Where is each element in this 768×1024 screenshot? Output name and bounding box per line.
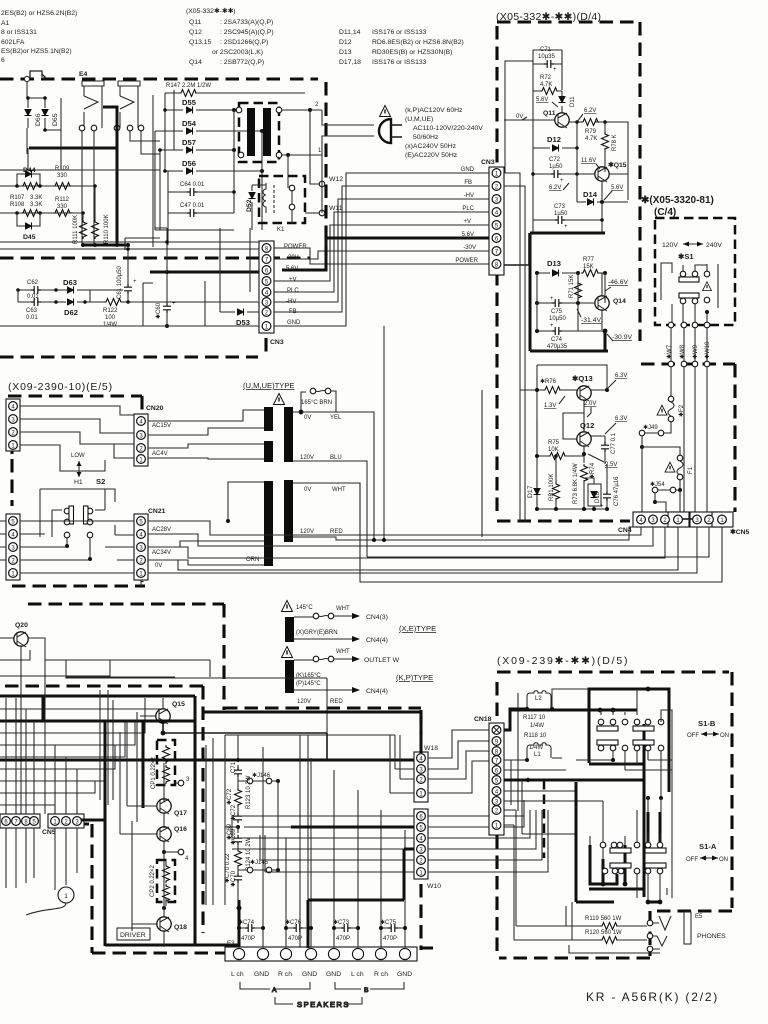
thermal fuse 165C — [299, 388, 336, 414]
wire CN20 to transformer taps — [148, 410, 264, 459]
svg-text:RD30ES(B) or HZS30N(B): RD30ES(B) or HZS30N(B) — [372, 49, 452, 56]
svg-text:+: + — [553, 67, 557, 73]
resistor R78 vertical — [602, 122, 619, 172]
wires W18 to CN18 — [428, 730, 490, 793]
svg-text:D54: D54 — [182, 119, 197, 128]
jumper J145 — [238, 859, 280, 873]
wire bottom rail of Q12 section — [537, 508, 607, 510]
svg-text:CN20: CN20 — [146, 405, 164, 412]
svg-text:330: 330 — [57, 204, 68, 210]
junction dots — [81, 243, 130, 247]
diode D63 — [54, 278, 90, 302]
svg-text:: 2SB772(Q,P): : 2SB772(Q,P) — [220, 59, 264, 66]
wire secondary 120V RED — [293, 527, 635, 540]
svg-text:D62: D62 — [64, 308, 78, 317]
svg-text:POWER: POWER — [284, 244, 307, 250]
svg-text:H1: H1 — [74, 479, 83, 486]
svg-text:-31.4V: -31.4V — [581, 317, 601, 324]
svg-text:✱J49: ✱J49 — [643, 424, 658, 431]
diode D54 — [155, 119, 264, 135]
CN3 right pin labels — [455, 167, 478, 264]
svg-text:D13: D13 — [339, 49, 352, 56]
capacitor C63 0.01 — [18, 290, 56, 321]
wires left into W18 — [390, 735, 414, 793]
svg-text:1/4W: 1/4W — [530, 723, 544, 729]
dashed border mid horizontal — [0, 355, 258, 358]
wire Q16-Q18 chain — [163, 858, 165, 908]
capacitor C61 100u50 vertical — [117, 247, 137, 304]
svg-text:LOW: LOW — [71, 453, 85, 459]
diode D57 — [160, 138, 236, 154]
svg-text:D14: D14 — [583, 190, 598, 199]
svg-text:-30.9V: -30.9V — [612, 334, 632, 341]
transformer mid left bars — [264, 407, 273, 431]
dashed separator W10 — [543, 780, 546, 858]
capacitor C72b — [230, 804, 242, 829]
svg-text:E5: E5 — [695, 914, 703, 920]
svg-text:FB: FB — [464, 180, 472, 186]
svg-text:-30V: -30V — [286, 255, 299, 261]
connector CN21 pins — [137, 517, 146, 578]
svg-text:3.3K: 3.3K — [30, 195, 42, 201]
svg-text:✱C69: ✱C69 — [230, 828, 237, 845]
resistor R112 330 — [53, 197, 85, 217]
svg-text:240V: 240V — [706, 242, 722, 249]
wires to speaker terminals — [263, 735, 405, 948]
label 3 terminal — [175, 777, 190, 786]
switch S1 right contacts — [703, 271, 712, 314]
dashed border jog right — [224, 706, 421, 709]
bold wire S1-B top loop — [589, 689, 669, 897]
coil L2 — [527, 691, 551, 709]
dashed box bottom-left top border — [28, 602, 224, 605]
label 0V — [504, 114, 555, 120]
svg-text:3.3K: 3.3K — [30, 202, 42, 208]
label -31.4V — [577, 309, 601, 324]
connector CN21 body — [134, 514, 148, 580]
svg-text:DRIVER: DRIVER — [120, 932, 146, 939]
diode D18 vertical boxed — [584, 478, 604, 510]
diode D13 — [535, 259, 580, 277]
svg-text:GND: GND — [287, 320, 301, 326]
dashed border left lower — [55, 824, 225, 953]
test point circles row — [79, 125, 144, 131]
label 0V WHT — [304, 487, 346, 493]
svg-text:K1: K1 — [277, 227, 285, 233]
svg-text:L ch: L ch — [231, 971, 244, 978]
W11 terminal — [305, 205, 343, 216]
thermal fuse row2 — [294, 656, 360, 662]
svg-text:10µ50: 10µ50 — [549, 316, 566, 322]
svg-text:C62: C62 — [27, 280, 39, 286]
bold wire W10 pin3 — [308, 849, 414, 948]
svg-text:D66: D66 — [35, 113, 42, 126]
svg-text:(U,M,UE): (U,M,UE) — [405, 116, 433, 123]
svg-text:C73: C73 — [554, 204, 566, 210]
svg-text:6.3V: 6.3V — [615, 373, 627, 379]
connector E5-left-lower pins — [9, 517, 18, 578]
label 120V RED — [300, 529, 343, 535]
svg-text:D56: D56 — [182, 159, 196, 168]
jumper hook on dashed line — [24, 71, 45, 82]
bold wire E4 net — [29, 107, 117, 245]
wire mesh left — [61, 130, 160, 245]
diode D11 vertical — [559, 91, 577, 112]
svg-text:6: 6 — [1, 57, 5, 64]
wire horizontal rows — [0, 148, 160, 213]
label 120V RED row2 — [297, 699, 343, 705]
svg-text:SPEAKERS: SPEAKERS — [297, 1000, 350, 1009]
wire transformer node 1 — [282, 154, 322, 156]
wire bundle left CN3 to right CN3 crossover — [274, 173, 489, 326]
S1-B contact bar row2 right — [633, 740, 654, 745]
title X05-3320-81 — [641, 195, 714, 218]
wire CN4-CN5 link — [682, 518, 693, 520]
svg-text:GND: GND — [397, 971, 412, 978]
diode D56 — [165, 159, 264, 175]
diode D52 vertical — [246, 185, 266, 230]
svg-text:D65: D65 — [52, 113, 59, 126]
parts list X05-332 — [186, 7, 274, 66]
svg-text:C61 100µ50: C61 100µ50 — [117, 266, 123, 299]
wire node1 down to relay — [287, 155, 289, 185]
svg-text:ES(B2)or HZS5.1N(B2): ES(B2)or HZS5.1N(B2) — [1, 48, 72, 55]
wire taps left of transformer bar C — [148, 482, 264, 565]
S1-B contact bar row2 left — [597, 740, 618, 745]
transistor Q15b — [140, 698, 185, 735]
resistor R124 10 2W vertical — [235, 837, 253, 871]
wire Q20 leads — [0, 638, 327, 814]
connector CN5-left-b body — [48, 814, 84, 828]
labels C72 C69 C70 vertical right — [224, 788, 233, 883]
AC plug body — [379, 119, 402, 143]
svg-text:A1: A1 — [1, 20, 10, 27]
connector CN5 pins — [693, 515, 727, 524]
svg-text:(X05-332✱-✱✱): (X05-332✱-✱✱) — [186, 7, 236, 15]
wire rows — [0, 228, 259, 249]
label 120V-240V — [662, 242, 722, 250]
diode D65 — [28, 96, 61, 132]
svg-text:-30V: -30V — [463, 245, 476, 251]
svg-text:✱C73: ✱C73 — [333, 919, 350, 926]
svg-text:1µ50: 1µ50 — [554, 211, 568, 217]
svg-text:+: + — [133, 279, 137, 285]
svg-text:145°C: 145°C — [296, 605, 313, 611]
label 6.3V q12 — [605, 416, 627, 434]
svg-text:R73 6.8K 1/4W: R73 6.8K 1/4W — [573, 463, 579, 504]
warning triangle row2 — [282, 647, 293, 658]
power supply dashed box C/4 — [655, 218, 735, 325]
svg-text:OFF: OFF — [686, 857, 698, 863]
speaker terminals — [233, 948, 410, 959]
warning triangle fuse — [274, 394, 285, 405]
diode D66 — [25, 96, 43, 128]
label OFF ON S1-A — [686, 856, 728, 864]
svg-text:R75: R75 — [548, 440, 560, 446]
wire output top — [225, 735, 395, 905]
fuse F1 — [677, 455, 694, 488]
connector E5-left-lower body — [6, 514, 20, 580]
parts list diodes column — [339, 29, 464, 66]
svg-text:PLC: PLC — [287, 288, 299, 294]
wire mid tap — [225, 827, 238, 833]
black bar row2 — [285, 660, 294, 693]
svg-text:W18: W18 — [424, 745, 438, 752]
svg-text:D17,18: D17,18 — [339, 59, 361, 66]
svg-text:R71 15K: R71 15K — [569, 275, 575, 298]
svg-text:R120 560 1W: R120 560 1W — [585, 930, 622, 936]
diode D17 vertical — [527, 480, 541, 509]
svg-text:R78 K: R78 K — [612, 134, 618, 151]
capacitor C76 470P — [284, 919, 313, 942]
svg-text:AC28V: AC28V — [152, 527, 171, 533]
resistor R119 560 1W — [566, 916, 647, 930]
switch S1 contact bar lower — [679, 293, 699, 304]
svg-text:Q16: Q16 — [174, 826, 187, 833]
terminal 5 — [163, 763, 165, 802]
svg-text:2.0V: 2.0V — [584, 401, 596, 407]
svg-text:0V: 0V — [516, 114, 523, 120]
resistor R147 2.2M 1/2W — [165, 83, 305, 97]
svg-text:D55: D55 — [182, 98, 197, 107]
S1-A contact bar row1 left — [610, 848, 631, 853]
svg-text:✱C72: ✱C72 — [226, 788, 233, 805]
wire CN18 pin6 — [504, 693, 566, 811]
svg-text:-HV: -HV — [464, 193, 474, 199]
svg-text:✱Q13: ✱Q13 — [572, 374, 593, 383]
bold wire rail2 — [0, 696, 196, 946]
connector CN18 pins — [492, 726, 501, 830]
bold wire CN5 pin3 — [81, 820, 239, 945]
wire GND FB down rails — [504, 173, 525, 522]
capacitor C70b — [230, 870, 242, 888]
svg-text:(k,P)AC120V 60Hz: (k,P)AC120V 60Hz — [405, 107, 463, 114]
wire rails to power row — [533, 215, 602, 232]
svg-text:(U,M,UE)TYPE: (U,M,UE)TYPE — [243, 381, 294, 390]
phones jack springs — [657, 916, 671, 946]
svg-text:4.7K: 4.7K — [540, 82, 552, 88]
label 11.6V — [581, 158, 600, 169]
wire box around C60 — [143, 228, 167, 326]
svg-text:R109: R109 — [55, 166, 70, 172]
bold wire W10 pin5 — [291, 826, 414, 829]
connector CN4 pins — [637, 515, 683, 524]
label 2.0V — [584, 401, 596, 417]
svg-text:470µ35: 470µ35 — [547, 344, 568, 350]
svg-text:✱R76: ✱R76 — [540, 378, 557, 385]
dashed border through W18/W10 — [421, 710, 433, 950]
svg-text:✱C60: ✱C60 — [155, 302, 162, 319]
wire exits to CN4 — [520, 555, 525, 557]
svg-text:120V: 120V — [662, 242, 678, 249]
right vertical wires of diode bank — [234, 110, 262, 230]
svg-text:A: A — [272, 987, 277, 994]
svg-text:C77 0.1: C77 0.1 — [611, 432, 617, 454]
svg-text:6.2V: 6.2V — [549, 185, 561, 191]
svg-text:C71: C71 — [231, 761, 237, 773]
svg-text:F1: F1 — [688, 466, 694, 474]
svg-text:330: 330 — [57, 173, 68, 179]
svg-text:Q12: Q12 — [580, 421, 594, 430]
transistor Q20 — [14, 622, 28, 647]
svg-text:Q15: Q15 — [172, 701, 185, 708]
switch S1 contact bar upper — [679, 271, 699, 282]
jumper J49 — [639, 424, 664, 449]
warning triangle F2 — [657, 405, 667, 415]
label 1.3V — [544, 396, 565, 409]
bold wire rail1 — [0, 696, 195, 946]
svg-text:PHONES: PHONES — [697, 933, 726, 940]
wire plug to transformer — [322, 110, 374, 213]
connector CN4 body — [633, 512, 689, 527]
fusible resistor E4 — [82, 81, 104, 128]
svg-text:Q17: Q17 — [174, 810, 187, 817]
svg-text:R79: R79 — [585, 129, 597, 135]
capacitor C47 0.01 — [168, 203, 234, 217]
svg-text:B: B — [364, 987, 369, 994]
label 120V BLU — [300, 455, 342, 461]
label 2.5V — [588, 454, 617, 468]
S1-B contact bar row1 right — [633, 726, 654, 731]
capacitor C74 470P — [237, 919, 265, 942]
wire transformer to node 2 — [282, 109, 322, 111]
svg-text:470P: 470P — [336, 936, 350, 942]
svg-text:✱W8: ✱W8 — [679, 344, 686, 359]
wire rails D13 section — [537, 273, 605, 331]
resistor R109 330 — [53, 166, 97, 190]
svg-text:120V: 120V — [300, 455, 314, 461]
svg-text:KR - A56R(K) (2/2): KR - A56R(K) (2/2) — [586, 990, 719, 1004]
svg-text:C74: C74 — [551, 337, 563, 343]
svg-text:(X09-2390-10)(E/5): (X09-2390-10)(E/5) — [8, 381, 113, 393]
svg-text:4.7K: 4.7K — [585, 136, 597, 142]
svg-text:CP2 0.22×2: CP2 0.22×2 — [150, 864, 156, 897]
resistor R107 3.3K — [10, 183, 42, 202]
svg-text:0.01: 0.01 — [26, 315, 38, 321]
svg-text:10µ35: 10µ35 — [538, 54, 555, 60]
svg-text:✱Q15: ✱Q15 — [608, 161, 627, 169]
svg-text:470P: 470P — [241, 936, 255, 942]
svg-text:WHT: WHT — [336, 606, 350, 612]
connector CN5-left-a body — [0, 814, 40, 828]
bracket SPEAKERS — [275, 997, 362, 1009]
coil L1 box — [527, 743, 551, 758]
dashed border corner down — [290, 79, 326, 255]
capacitor C73 1u50 — [533, 202, 604, 230]
svg-text:(X)GRY(E)BRN: (X)GRY(E)BRN — [296, 630, 338, 636]
wire GND row — [0, 325, 259, 327]
svg-text:165°C BRN: 165°C BRN — [301, 400, 332, 406]
svg-text:ON: ON — [719, 857, 728, 863]
wire L1/L2 right joins — [552, 689, 612, 758]
warning triangle F1 — [665, 462, 675, 472]
connector W18 pins — [417, 754, 426, 798]
svg-text:GND: GND — [302, 971, 317, 978]
svg-text:1µ50: 1µ50 — [549, 164, 563, 170]
transistor Q17 — [127, 799, 187, 828]
bold wire to Lch terminal — [238, 900, 241, 948]
wires left column drops — [6, 659, 100, 814]
rails vertical — [505, 50, 562, 232]
svg-text:0V: 0V — [155, 563, 162, 569]
svg-text:120V: 120V — [300, 529, 314, 535]
wire rows left strip to CN21 — [0, 521, 134, 573]
resistor R111 100K vertical — [73, 215, 87, 244]
svg-text:S1-A: S1-A — [699, 842, 717, 851]
resistor R75 10K — [535, 420, 584, 460]
svg-text:Q13,15: Q13,15 — [189, 39, 212, 46]
resistor R81 100K vertical — [549, 454, 560, 509]
svg-text:✱C76: ✱C76 — [285, 919, 302, 926]
connector W18 body — [414, 752, 428, 802]
resistor R110 100K vertical — [92, 214, 111, 244]
svg-text:OUTLET W: OUTLET W — [364, 657, 400, 664]
transformer terminals — [236, 107, 282, 158]
switch S1 wiring — [661, 263, 718, 325]
svg-text:CN3: CN3 — [481, 159, 495, 166]
wires below diode bank to left CN3 — [155, 213, 234, 245]
resistor R79 4.7K — [581, 119, 600, 143]
arrow CN4(4) row1 — [294, 636, 388, 644]
junction dots diode bank — [158, 108, 236, 194]
svg-text:R ch: R ch — [374, 971, 388, 978]
svg-text:CN21: CN21 — [148, 508, 166, 515]
wire verticals through mid page — [384, 326, 482, 540]
capacitor C71 10u35 — [533, 47, 562, 73]
capacitor C69b — [230, 828, 242, 849]
resistor R76 — [520, 378, 577, 394]
wire right loop S1-B — [625, 710, 672, 798]
svg-text:R119 560 1W: R119 560 1W — [585, 916, 622, 922]
CN3 left labels — [284, 244, 307, 326]
wire vertical into D53 — [219, 228, 221, 312]
svg-text:AC15V: AC15V — [152, 423, 171, 429]
svg-text:470P: 470P — [383, 936, 397, 942]
S1-A contacts row1 circles — [600, 842, 663, 848]
resistor R74 vertical — [581, 462, 597, 509]
svg-text:W12: W12 — [329, 176, 343, 183]
diode D44 — [17, 167, 40, 186]
capacitor C62 0.01 — [16, 280, 68, 300]
svg-text:+: + — [560, 178, 564, 184]
svg-text:Q14: Q14 — [189, 59, 202, 66]
svg-text:+V: +V — [463, 219, 471, 225]
terminal 4 — [164, 849, 189, 862]
wire down to S1-A area — [648, 798, 672, 898]
diode D14 — [577, 174, 628, 206]
transistor Q12 — [563, 413, 605, 463]
svg-text:AC34V: AC34V — [152, 550, 171, 556]
svg-text:✱CN5: ✱CN5 — [730, 528, 750, 536]
wire secondary 0V WHT — [293, 483, 360, 568]
dashed box D/5 — [497, 672, 732, 958]
svg-text:(x)AC240V 50Hz: (x)AC240V 50Hz — [405, 143, 457, 150]
svg-text:100: 100 — [105, 315, 116, 321]
connector E5-left-upper pins — [9, 402, 18, 450]
svg-text:C72: C72 — [549, 157, 561, 163]
speaker terminal board E3 — [225, 947, 417, 961]
S1-A contact bar row2 right — [645, 863, 666, 868]
svg-text:R147 2.2M 1/2W: R147 2.2M 1/2W — [166, 83, 211, 89]
phones jack body — [684, 912, 691, 944]
svg-text:C75: C75 — [551, 309, 563, 315]
svg-text:D13: D13 — [547, 259, 561, 268]
svg-text:R110 100K: R110 100K — [104, 214, 110, 244]
wire J49 to F1 — [642, 447, 680, 520]
svg-text:RED: RED — [330, 529, 343, 535]
svg-text:C64 0.01: C64 0.01 — [180, 182, 205, 188]
svg-text:1/4W: 1/4W — [103, 322, 117, 328]
